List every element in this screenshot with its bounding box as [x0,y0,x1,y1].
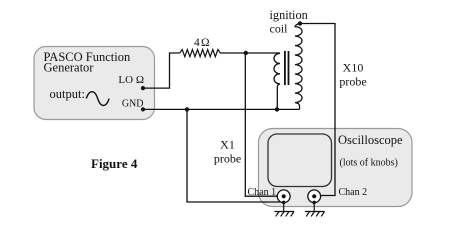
node junction primary bottom [275,107,279,111]
wire GND bus [143,108,300,110]
terminal LO dot [141,86,145,90]
connector Chan1 BNC [277,190,290,204]
svg-text:Oscilloscope: Oscilloscope [338,133,403,147]
node junction secondary top [298,21,302,25]
wire X1 probe to Chan 1 [245,53,277,196]
node junction on GND bus [185,107,189,111]
terminal GND dot [141,107,145,111]
svg-text:Ω: Ω [201,37,210,49]
transformer T1 primary winding [274,53,280,109]
transformer T1 secondary winding [295,24,302,110]
node junction at resistor output [244,51,248,55]
wire LO to resistor [143,53,180,88]
connector Chan2 BNC [308,190,321,204]
svg-text:output:: output: [50,87,85,101]
svg-text:probe: probe [339,75,366,89]
svg-text:4: 4 [194,37,200,49]
wire X10 probe to Chan 2 [300,24,335,196]
svg-text:probe: probe [214,152,241,166]
ground symbol under Chan1 [275,202,295,216]
svg-text:coil: coil [270,22,289,36]
svg-text:GND: GND [122,98,144,109]
svg-text:LO Ω: LO Ω [118,74,144,86]
label "ignition coil" [270,8,308,36]
wire resistor to transformer primary [220,52,280,54]
oscilloscope box [259,129,413,207]
svg-text:Generator: Generator [44,61,95,75]
svg-text:Chan 1: Chan 1 [248,187,277,198]
wire GND to Chan1 shell [187,109,281,202]
svg-text:X10: X10 [343,61,364,75]
resistor R 4ohm [180,50,221,57]
label "X10 probe" [339,61,366,89]
svg-text:Chan 2: Chan 2 [339,187,368,198]
svg-text:ignition: ignition [270,8,308,22]
svg-text:Figure 4: Figure 4 [91,156,138,171]
sine wave symbol [86,92,109,106]
svg-text:(lots of knobs): (lots of knobs) [340,158,398,169]
transformer T1 core [285,51,289,85]
svg-text:X1: X1 [220,138,235,152]
function generator box [34,47,155,120]
oscilloscope screen [268,134,332,187]
label "PASCO Function Generator" [44,50,131,75]
ground symbol under Chan2 [305,202,325,216]
label "X1 probe" [214,138,241,166]
